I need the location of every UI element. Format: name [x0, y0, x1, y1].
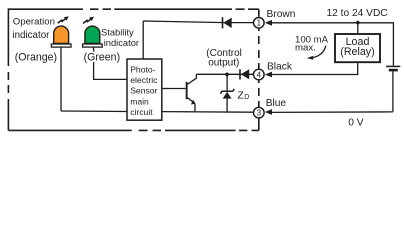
svg-text:1: 1 — [257, 19, 262, 28]
svg-text:indicator: indicator — [104, 38, 139, 48]
svg-text:main: main — [130, 96, 149, 106]
svg-text:output): output) — [208, 57, 239, 68]
svg-text:D: D — [244, 94, 249, 101]
svg-text:Blue: Blue — [266, 98, 287, 109]
svg-text:Operation: Operation — [13, 16, 55, 27]
svg-text:Brown: Brown — [267, 9, 296, 20]
svg-text:4: 4 — [257, 70, 262, 79]
svg-text:12 to 24 VDC: 12 to 24 VDC — [327, 8, 388, 19]
svg-text:(Orange): (Orange) — [15, 51, 57, 63]
svg-text:Black: Black — [267, 62, 293, 73]
svg-text:Sensor: Sensor — [130, 86, 157, 96]
svg-text:Stability: Stability — [101, 28, 134, 38]
svg-text:(Relay): (Relay) — [340, 46, 374, 58]
svg-text:max.: max. — [295, 43, 316, 54]
svg-text:Photo-: Photo- — [130, 65, 155, 75]
svg-text:electric: electric — [130, 75, 158, 85]
svg-text:0 V: 0 V — [348, 118, 363, 129]
svg-text:indicator: indicator — [12, 30, 50, 41]
svg-text:3: 3 — [257, 108, 262, 117]
svg-text:(Green): (Green) — [84, 51, 121, 63]
svg-text:circuit: circuit — [130, 107, 153, 117]
